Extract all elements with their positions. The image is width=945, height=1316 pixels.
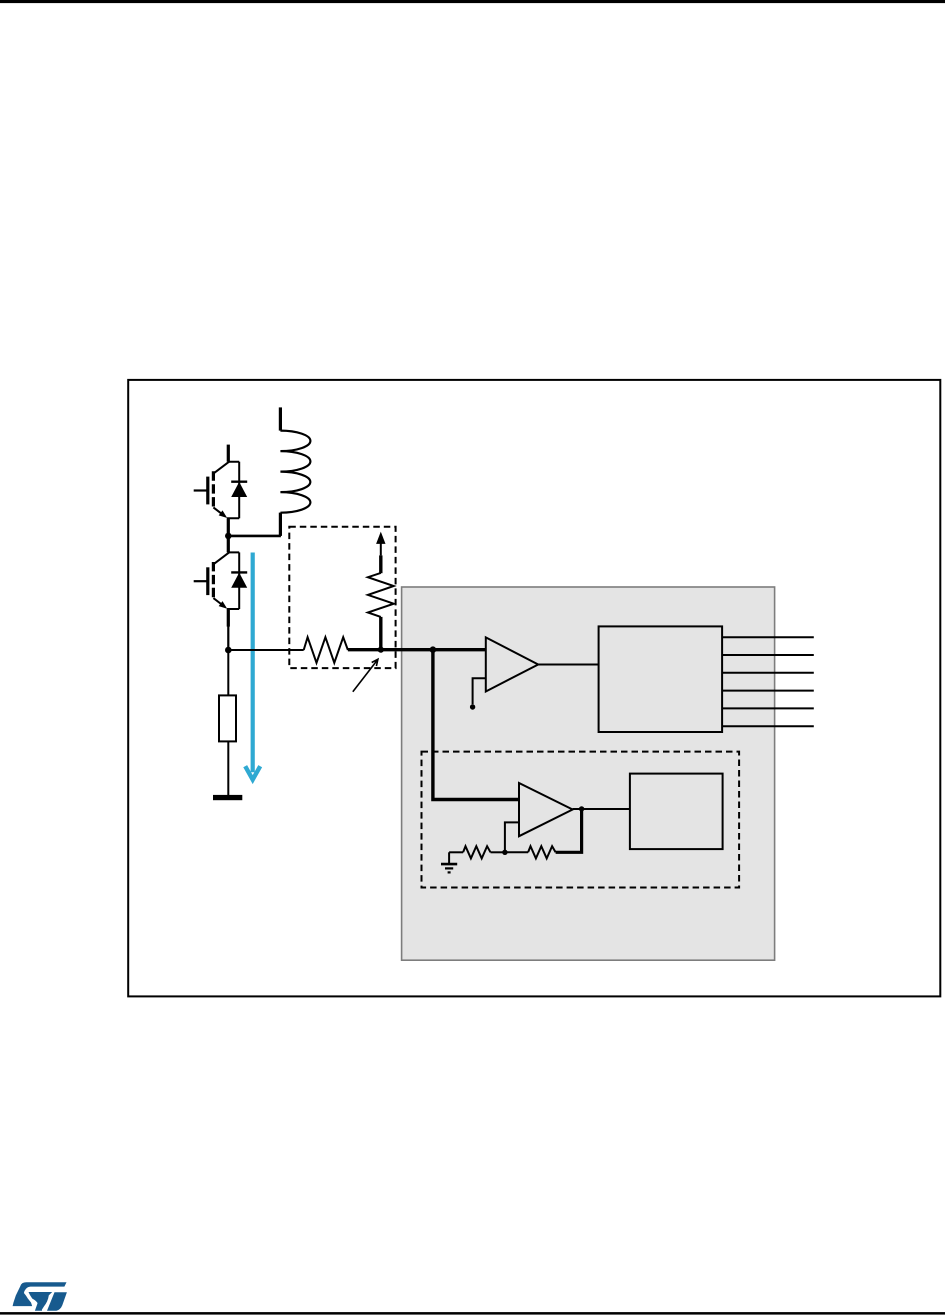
- figure frame: [128, 380, 940, 997]
- resistor R4 (gain set): [463, 846, 490, 858]
- op-amp inverting stub: [505, 822, 519, 852]
- resistor Rshunt: [227, 650, 229, 695]
- ground (power stage): [213, 795, 242, 800]
- wires: logic outputs: [722, 637, 814, 726]
- transistor Q1 (IGBT with freewheeling diode): [194, 445, 248, 536]
- wire R4 to ground: [449, 851, 463, 853]
- ground (signal): [441, 852, 457, 872]
- wire comparator output: [538, 664, 598, 666]
- resistor R2 (pull-up to supply): [368, 573, 394, 617]
- wire branch down to amplifier (thick): [433, 650, 519, 800]
- node: feedback junction: [502, 850, 507, 855]
- comparator reference stub: [473, 678, 486, 704]
- node: comparator input branch: [430, 646, 437, 653]
- current direction arrow (cyan): [245, 553, 260, 780]
- wire op-amp output to ADC block: [573, 808, 630, 810]
- block: fault logic: [599, 626, 723, 732]
- node: op-amp output: [579, 806, 584, 811]
- resistor R3 (feedback): [528, 846, 556, 858]
- block: ADC: [630, 774, 723, 850]
- header rule (cropped): [0, 0, 945, 3]
- node: half-bridge midpoint: [225, 533, 232, 540]
- footer rule: [0, 1312, 945, 1315]
- wire Q2 emitter to sense node: [227, 625, 229, 650]
- comparator U1: [486, 637, 538, 691]
- node: shunt sense node: [225, 647, 232, 654]
- dashed box: optional amplification stage: [422, 752, 740, 888]
- resistor R1 (series filter): [304, 637, 348, 663]
- wire R3 to junction: [505, 851, 528, 853]
- dashed box: external sense network: [289, 527, 395, 668]
- wire R4 to junction: [491, 851, 505, 853]
- node: R1/R2 junction: [378, 647, 384, 653]
- wire feedback (thick): [556, 809, 582, 852]
- wire: filtered signal (thick): [348, 648, 486, 651]
- op-amp A1: [519, 783, 573, 836]
- ST logo: [13, 1282, 67, 1311]
- transistor Q2 (IGBT with freewheeling diode): [194, 535, 248, 626]
- annotation arrow to sense node: [353, 661, 377, 692]
- IC shaded body: [402, 587, 775, 960]
- wire inductor to midpoint node: [228, 535, 281, 538]
- wire sense node to filter: [228, 649, 303, 651]
- inductor L1: [280, 407, 310, 536]
